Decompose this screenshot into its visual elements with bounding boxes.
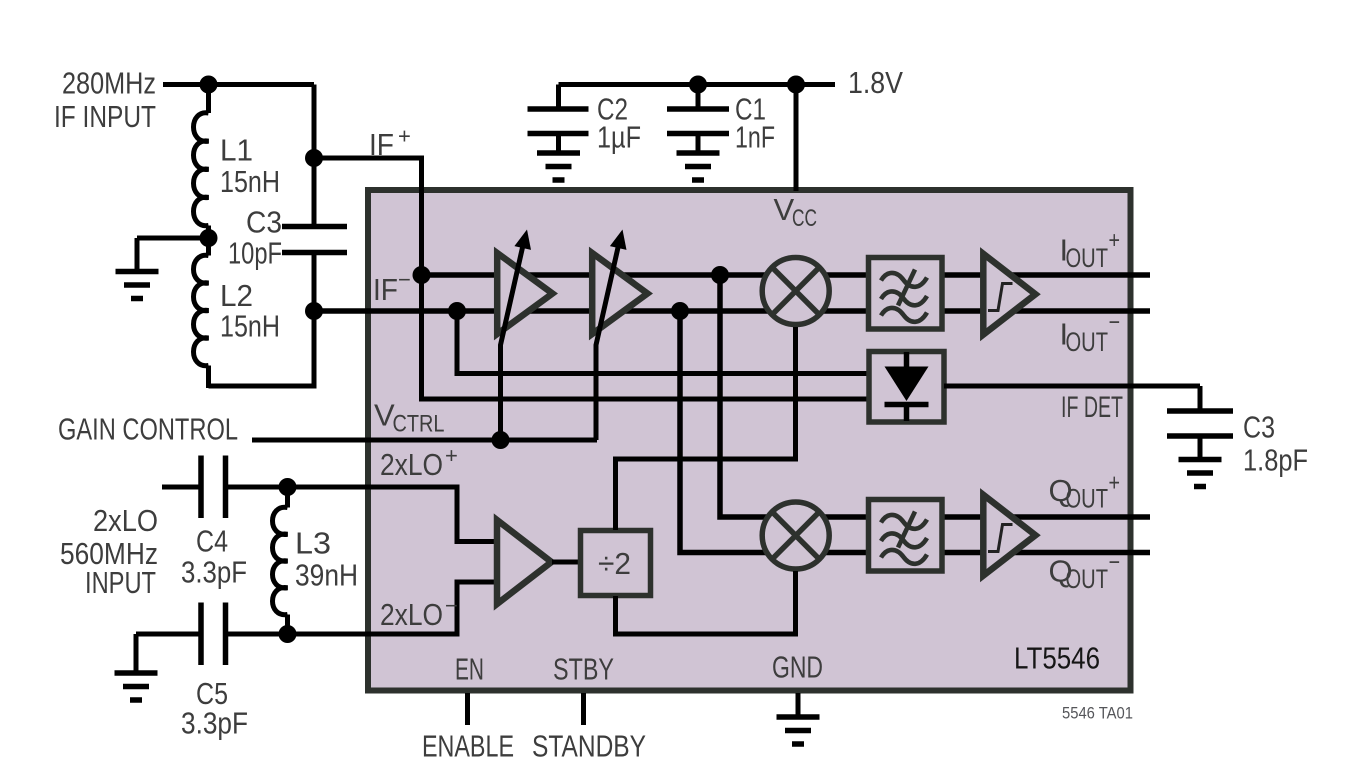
junction L1/L2 tap [200, 229, 218, 247]
wire 1.8V supply rail [559, 82, 836, 87]
svg-text:2xLO: 2xLO [380, 597, 443, 632]
op-amp VGA2 [592, 253, 647, 334]
junction VCC/supply [787, 76, 805, 94]
svg-text:−: − [1109, 309, 1121, 336]
svg-text:280MHz: 280MHz [62, 66, 156, 101]
ground below C3 1.8pF [1179, 460, 1222, 487]
svg-text:1.8pF: 1.8pF [1243, 443, 1308, 478]
ground at L1/L2 center tap [116, 272, 159, 299]
svg-text:2xLO: 2xLO [380, 447, 443, 482]
wire IF DET to C3 [1198, 386, 1203, 411]
wire C1 to ground [696, 134, 701, 152]
ground at C5 [115, 673, 158, 700]
wire resonator vertical lower + bottom [209, 253, 315, 387]
wire input resonator vertical upper [312, 85, 317, 227]
svg-text:−: − [398, 267, 411, 292]
svg-text:2xLO: 2xLO [93, 503, 158, 538]
junction IF+ tap [305, 149, 323, 167]
wire C2 to ground [556, 134, 561, 152]
svg-text:L1: L1 [220, 133, 253, 168]
svg-text:GAIN CONTROL: GAIN CONTROL [58, 412, 238, 447]
wire center tap to ground [137, 236, 209, 241]
junction VCTRL arrows [492, 431, 510, 449]
filter Q path [869, 500, 943, 572]
wire L1 top lead [206, 85, 211, 114]
wire 280MHz IF input [163, 82, 314, 87]
svg-text:IF DET: IF DET [1061, 391, 1123, 424]
svg-text:CC: CC [792, 205, 817, 232]
IF detector box [869, 352, 944, 423]
svg-text:LT5546: LT5546 [1014, 641, 1100, 676]
svg-text:−: − [445, 593, 458, 618]
svg-text:STANDBY: STANDBY [532, 729, 646, 764]
op-amp I output buffer [983, 254, 1035, 335]
wire C3 to ground [1198, 436, 1203, 458]
wire divider to Q mixer LO [616, 571, 796, 634]
junction IF- tap [305, 302, 323, 320]
VGA1 arrowhead [514, 230, 531, 250]
wire I path top rail [422, 272, 1151, 278]
I buffer limiter glyph [988, 284, 1013, 311]
IC block LT5546 body [368, 190, 1131, 691]
op-amp Q output buffer [983, 495, 1035, 576]
svg-text:15nH: 15nH [220, 164, 280, 199]
wire L1-L2 link [206, 226, 211, 256]
svg-text:IF: IF [369, 127, 394, 162]
svg-text:EN: EN [455, 652, 484, 687]
wire VGA2 gain arrow line [596, 248, 618, 441]
ground below C1 [677, 153, 720, 180]
capacitor C3 10pF [282, 227, 347, 253]
filter I path [869, 258, 943, 330]
divide-by-2 box [581, 531, 651, 596]
svg-text:−: − [1109, 549, 1121, 576]
junction IF+ rail [413, 266, 431, 284]
inductor L2 15nH [194, 255, 209, 365]
wire L3 top lead [285, 487, 290, 508]
svg-text:15nH: 15nH [220, 309, 280, 344]
junction 2xLO+/L3 [279, 478, 297, 496]
wire L2 bottom lead [206, 366, 211, 389]
wire C2 lead [556, 85, 561, 110]
wire VCC lead into block [794, 85, 799, 192]
svg-text:39nH: 39nH [295, 558, 358, 593]
svg-text:OUT: OUT [1066, 484, 1109, 514]
svg-text:L3: L3 [295, 526, 331, 561]
svg-text:C3: C3 [246, 205, 282, 240]
inductor L3 39nH [273, 507, 288, 614]
wire 2xLO+ into LO amp [226, 487, 498, 542]
svg-text:1nF: 1nF [735, 120, 775, 155]
svg-text:5546 TA01: 5546 TA01 [1062, 704, 1133, 723]
wire C1 lead [696, 85, 701, 110]
svg-text:INPUT: INPUT [85, 565, 156, 600]
svg-text:GND: GND [772, 650, 823, 685]
svg-text:C4: C4 [196, 524, 228, 559]
junction bottom rail to Q mixer [671, 302, 689, 320]
svg-text:÷2: ÷2 [598, 546, 631, 581]
svg-text:STBY: STBY [553, 652, 614, 687]
wire 2xLO- into LO amp [226, 582, 498, 634]
wire top rail to Q mixer / Q top rail [720, 275, 1150, 517]
capacitor C1 1nF [667, 109, 729, 134]
wire IF+ entry [314, 158, 422, 275]
wire gain control VCTRL [252, 438, 597, 443]
inductor L1 15nH [194, 113, 209, 226]
junction IF input/L1 [200, 76, 218, 94]
wire C5 to ground wire [136, 632, 201, 637]
svg-text:ENABLE: ENABLE [422, 729, 514, 764]
junction C1/supply [689, 76, 707, 94]
junction 2xLO-/L3 [279, 625, 297, 643]
svg-text:+: + [398, 124, 411, 149]
wire IF DET output [944, 384, 1200, 389]
VGA2 arrowhead [610, 230, 627, 250]
wire GND pin stub [796, 693, 801, 715]
wire EN pin stub [465, 693, 470, 725]
wire bottom rail to detector [457, 311, 869, 374]
wire bottom rail to Q mixer / Q bottom rail [680, 311, 1150, 553]
mixer I (circle-X) [762, 258, 829, 325]
junction IF- rail [448, 302, 466, 320]
svg-text:1.8V: 1.8V [848, 65, 903, 100]
mixer Q (circle-X) [762, 502, 829, 569]
wire ground stub [135, 238, 140, 270]
svg-text:1µF: 1µF [597, 120, 641, 155]
svg-text:3.3pF: 3.3pF [181, 555, 247, 590]
wire VGA1 gain arrow line [501, 248, 523, 441]
capacitor C3 1.8pF [1167, 411, 1233, 436]
wire I path bottom rail (IF-) [314, 308, 1150, 314]
svg-text:OUT: OUT [1066, 327, 1109, 357]
svg-text:CTRL: CTRL [393, 411, 445, 438]
junction top rail to Q mixer [711, 266, 729, 284]
svg-text:10pF: 10pF [228, 236, 282, 271]
wire STBY pin stub [581, 693, 586, 725]
capacitor C2 1uF [528, 109, 589, 134]
capacitor C4 3.3pF [201, 456, 226, 519]
ground at GND pin [777, 717, 820, 744]
wire LO amp to divider [552, 560, 580, 565]
svg-text:OUT: OUT [1066, 243, 1109, 273]
op-amp LO buffer [497, 520, 552, 604]
wire top rail to detector [422, 275, 870, 399]
capacitor C5 3.3pF [201, 603, 226, 666]
op-amp VGA1 [497, 253, 552, 334]
Q buffer limiter glyph [988, 525, 1013, 552]
wire 2xLO input [162, 485, 201, 490]
wire L3 bottom lead [285, 615, 290, 635]
svg-text:+: + [445, 443, 458, 468]
wire ground stub C5 [134, 634, 139, 671]
svg-text:C3: C3 [1243, 410, 1275, 445]
svg-text:IF: IF [373, 272, 398, 307]
svg-text:OUT: OUT [1066, 564, 1109, 594]
svg-text:IF INPUT: IF INPUT [54, 99, 156, 134]
svg-text:+: + [1109, 470, 1121, 497]
wire divider to I mixer LO [616, 327, 796, 530]
svg-text:3.3pF: 3.3pF [181, 706, 248, 741]
svg-text:+: + [1109, 227, 1121, 254]
ground below C2 [537, 153, 580, 180]
